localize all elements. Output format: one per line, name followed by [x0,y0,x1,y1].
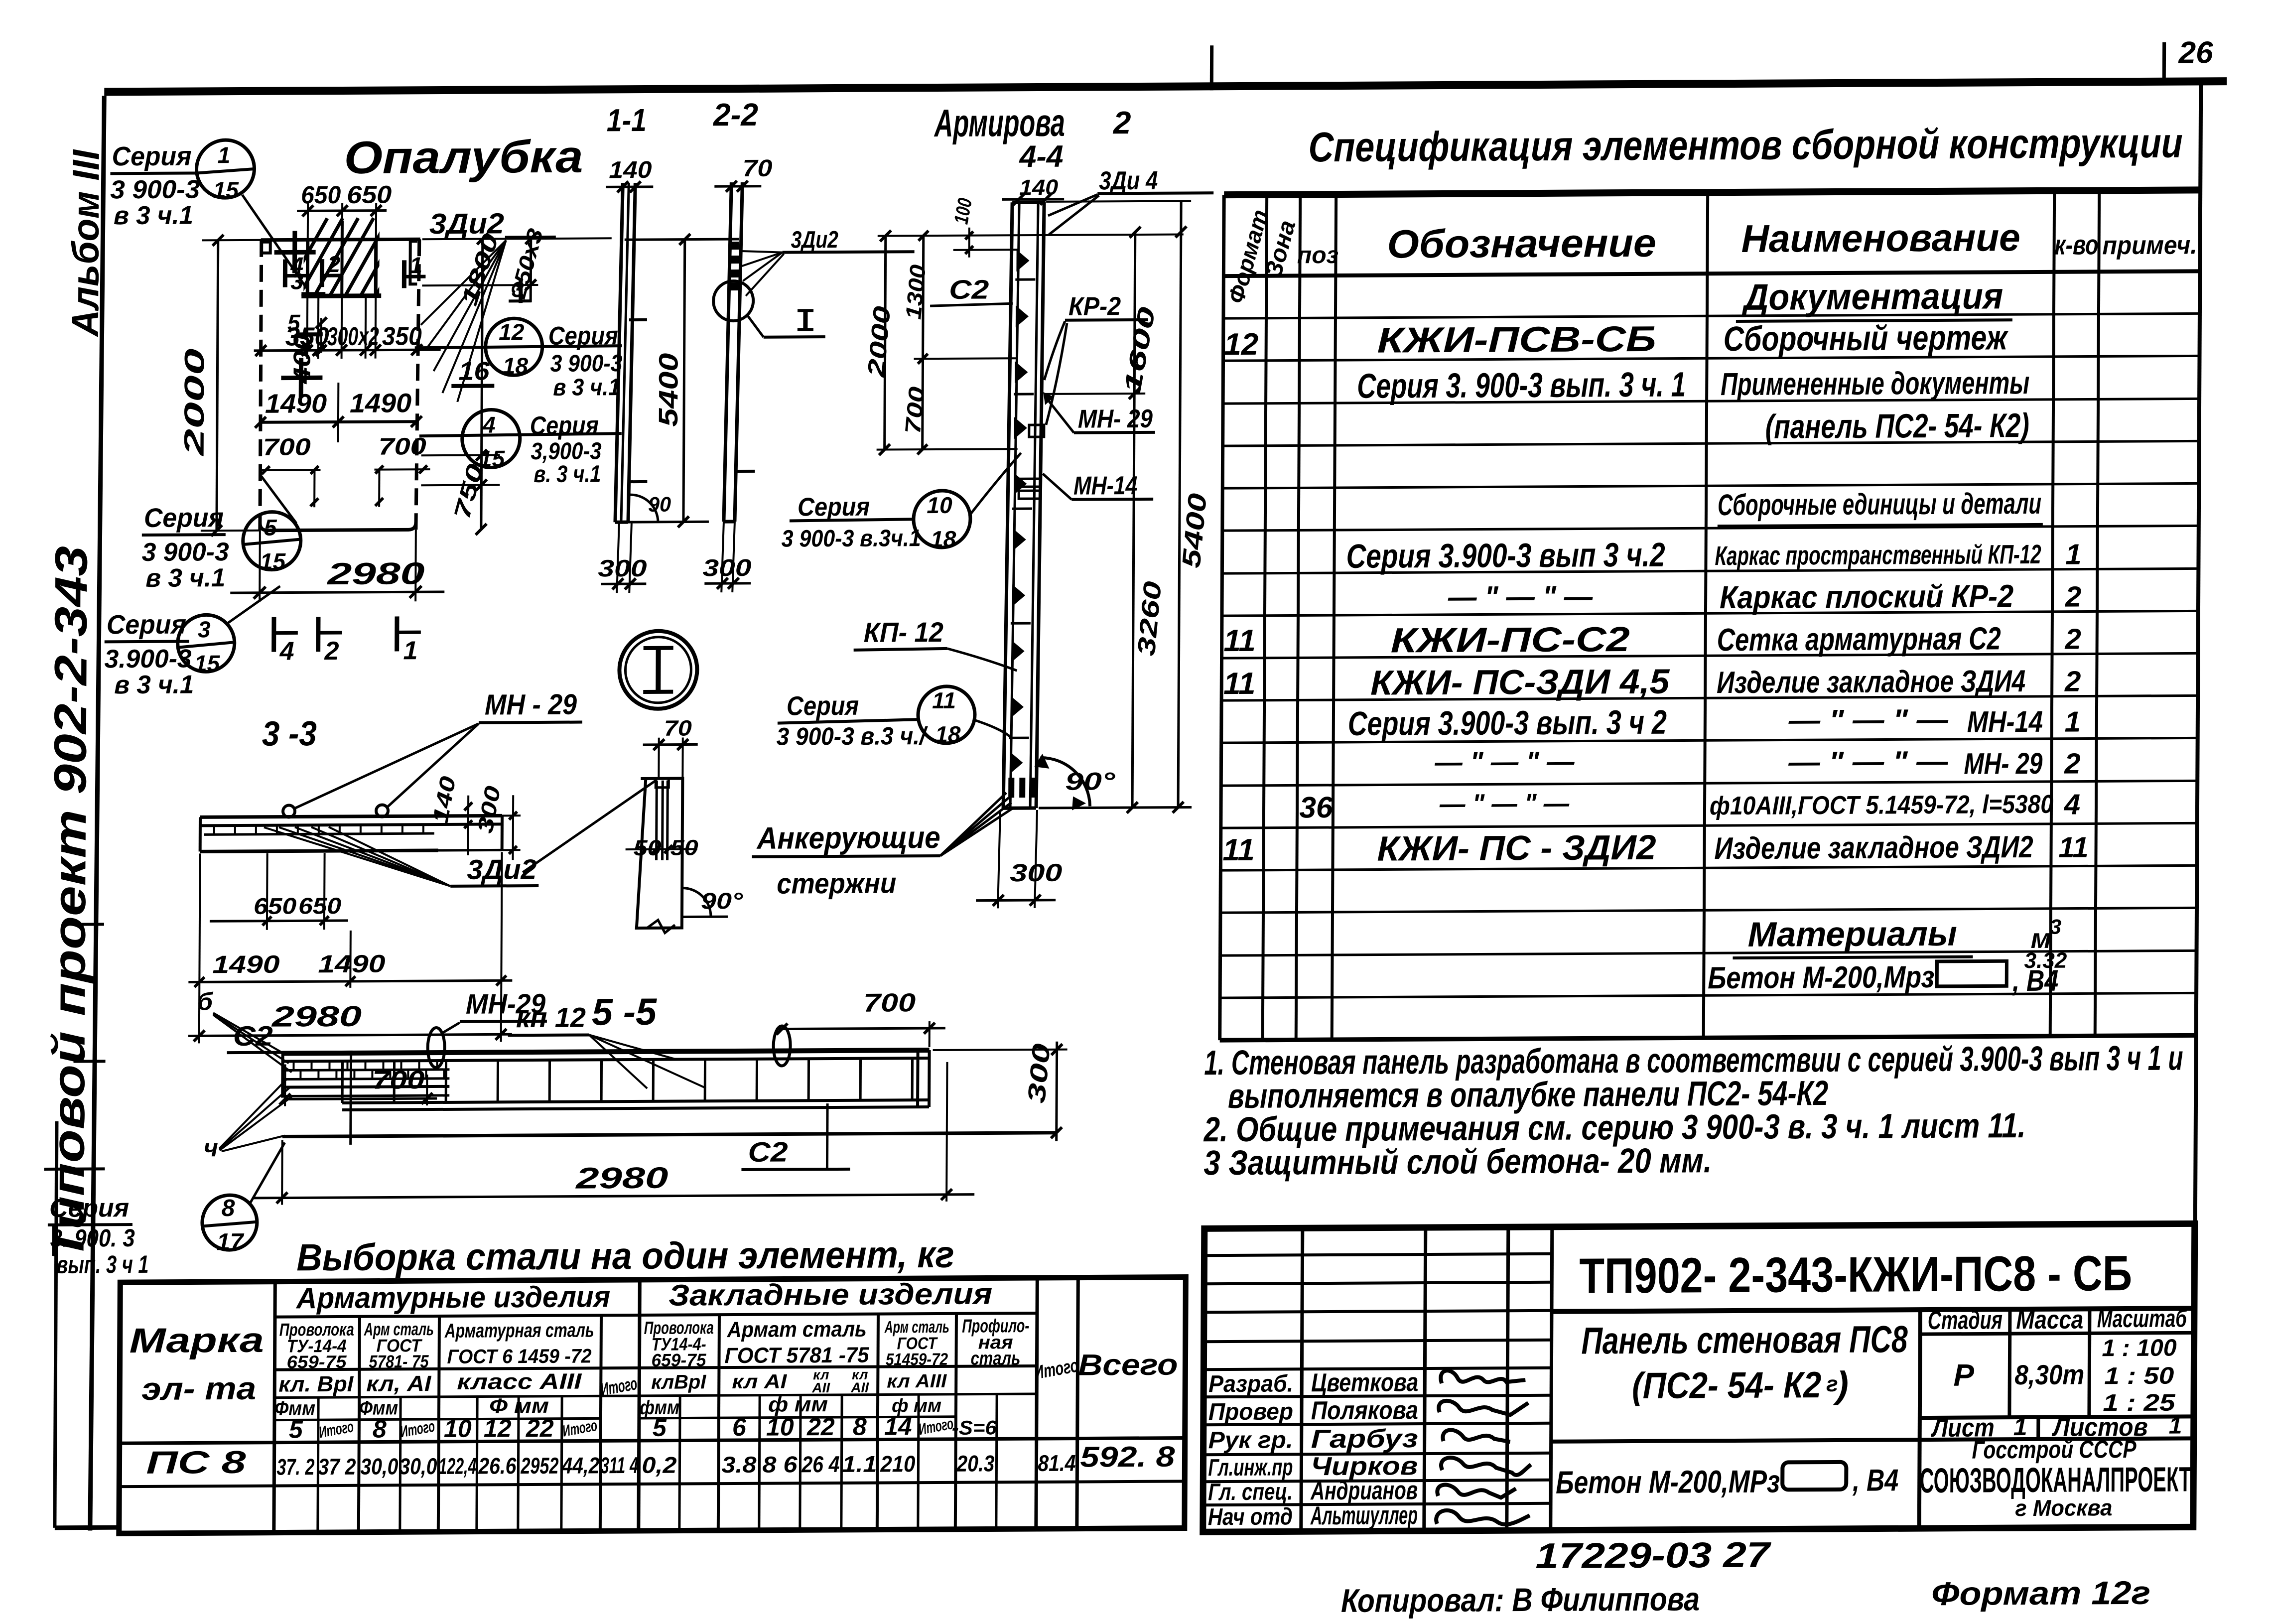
MN-29 hook symbol on 4-4 [1029,425,1044,437]
dim 700 right of 5-5 [776,988,946,1048]
org names [1919,1435,2191,1521]
label Ankeruyushchie sterzhni [752,793,1014,900]
label 3Di2 for 2-2 [741,226,915,296]
series label 10/18 [782,453,1021,552]
svg-text:Стадия: Стадия [1928,1306,2003,1335]
series label 1/15 [110,139,307,289]
svg-text:1: 1 [2065,706,2081,738]
svg-text:кл АI: кл АI [732,1370,787,1393]
svg-text:30,0: 30,0 [360,1453,399,1479]
signature labels [1208,1368,1419,1531]
svg-text:3 900-3: 3 900-3 [142,538,229,567]
svg-text:Сборочные единицы и детали: Сборочные единицы и детали [1718,487,2041,522]
svg-text:(панель ПС2- 54- К2): (панель ПС2- 54- К2) [1765,406,2029,446]
svg-text:Опалубка: Опалубка [344,132,583,183]
svg-text:в 3 ч.1: в 3 ч.1 [553,374,620,401]
svg-text:вып. 3 ч 1: вып. 3 ч 1 [56,1250,148,1279]
dim 300 bottom of 1-1 [598,522,647,593]
svg-text:2: 2 [2064,748,2081,780]
svg-text:311 4: 311 4 [600,1452,638,1478]
svg-text:Цветкова: Цветкова [1311,1368,1418,1397]
svg-text:700: 700 [379,433,427,460]
svg-text:8: 8 [222,1195,235,1221]
svg-text:Каркас плоский КР-2: Каркас плоский КР-2 [1720,578,2013,615]
stadia massa masshtab [1927,1304,2188,1417]
svg-text:6: 6 [732,1413,747,1441]
svg-text:(ПС2- 54- К2: (ПС2- 54- К2 [1632,1364,1821,1406]
svg-text:50: 50 [670,835,699,860]
svg-text:70: 70 [664,716,692,740]
dim 70 top of anchor detail [643,716,698,779]
sheet top border [104,81,2227,92]
svg-text:-S=6: -S=6 [952,1417,997,1439]
svg-text:3.8: 3.8 [721,1452,757,1478]
svg-text:15: 15 [479,445,506,471]
steel table header text [129,1276,1179,1445]
svg-text:— " — " —: — " — " — [1448,579,1593,613]
svg-text:300х2: 300х2 [327,322,379,352]
specification table grid [1220,190,2200,1040]
svg-text:3 900-3 в.3ч.1: 3 900-3 в.3ч.1 [782,525,921,552]
svg-text:300: 300 [702,555,752,581]
reinforcement title Armirova 2 [934,100,1131,145]
title block doc number [1579,1245,2133,1304]
section 2-2 title [713,97,758,133]
dim 2000 left of plan [178,235,262,537]
svg-text:Серия 3.900-3 вып 3 ч.2: Серия 3.900-3 вып 3 ч.2 [1346,536,1665,575]
dim 650 650 above plan [297,180,392,240]
svg-text:3 Защитный слой бетона-: 3 Защитный слой бетона- 20 мм. [1203,1141,1712,1182]
anchor rod detail [625,778,699,928]
formwork title Opalubka [344,132,583,183]
svg-text:Серия 3.900-3 вып. 3 ч 2: Серия 3.900-3 вып. 3 ч 2 [1348,703,1667,743]
svg-text:Примененные документы: Примененные документы [1721,365,2029,402]
svg-text:18: 18 [503,353,529,379]
formwork notch with hatching [279,218,435,303]
svg-text:1 : 100: 1 : 100 [2102,1335,2177,1362]
svg-text:Закладные изделия: Закладные изделия [668,1277,992,1312]
spec rows text [1221,274,2092,1001]
svg-text:1: 1 [218,142,231,168]
svg-text:14: 14 [884,1412,912,1440]
5-5 lattice [342,1050,930,1110]
svg-text:15: 15 [194,650,221,676]
svg-text:ГОСТ 5781 -75: ГОСТ 5781 -75 [724,1343,869,1368]
title block grid [1203,1223,2195,1532]
sheet right border [2195,81,2201,1223]
svg-text:Гл. спец.: Гл. спец. [1208,1479,1293,1505]
svg-text:кп 12: кп 12 [516,1002,586,1034]
label b with fan [197,987,292,1073]
svg-text:4-4: 4-4 [1018,139,1063,174]
svg-text:поз: поз [1297,242,1338,269]
svg-text:650: 650 [301,181,341,209]
svg-text:Госстрой СССР: Госстрой СССР [1972,1435,2137,1464]
svg-text:140: 140 [1019,175,1059,200]
svg-text:сталь: сталь [970,1348,1020,1369]
4-4 left dims [863,195,1184,455]
series label 11/18 [777,686,1012,750]
svg-text:Серия: Серия [49,1194,129,1223]
svg-text:Спецификация элементов сборн: Спецификация элементов сборной конструкц… [1308,120,2182,171]
svg-text:659-75: 659-75 [651,1350,706,1370]
5-5 left band [282,1053,449,1098]
svg-text:Разраб.: Разраб. [1208,1370,1293,1397]
dim 140 top of 4-4 [1002,175,1064,205]
svg-text:1300: 1300 [901,264,931,320]
svg-text:МН- 29: МН- 29 [1078,405,1153,434]
svg-text:1490: 1490 [212,950,280,979]
svg-text:Гл.инж.пр: Гл.инж.пр [1208,1454,1293,1481]
svg-text:1.1: 1.1 [842,1451,877,1477]
svg-text:5: 5 [287,309,301,335]
notch dim 350 300x2 350 [254,295,441,359]
svg-text:3 900-3 в.3 ч./: 3 900-3 в.3 ч./ [777,722,929,751]
90 deg mark 1-1 [630,493,671,522]
svg-text:37 2: 37 2 [318,1454,356,1480]
svg-text:10: 10 [444,1415,472,1443]
svg-text:8: 8 [853,1413,867,1441]
svg-text:С2: С2 [233,1020,273,1052]
svg-text:36: 36 [1299,791,1333,824]
svg-text:3Ди2: 3Ди2 [791,227,839,253]
svg-text:659-75: 659-75 [286,1352,347,1372]
svg-text:Серия: Серия [530,411,599,440]
svg-text:3 900-3: 3 900-3 [550,350,623,377]
svg-text:Каркас пространственный КП-12: Каркас пространственный КП-12 [1715,540,2041,571]
svg-text:100: 100 [950,197,976,226]
svg-text:0,2: 0,2 [642,1452,677,1478]
list row [1930,1412,2182,1443]
svg-text:11: 11 [1222,833,1255,867]
dim 700 pair inside plan [260,433,430,508]
svg-text:МН- 29: МН- 29 [1964,747,2043,781]
section 1-1 title [607,102,647,138]
svg-text:, В4: , В4 [1852,1463,1898,1497]
dim 250x3 right of plan [422,226,612,302]
svg-text:МН-14: МН-14 [1073,471,1137,501]
svg-text:15: 15 [213,177,240,203]
svg-text:клВрI: клВрI [651,1371,706,1393]
svg-text:Армирова: Армирова [934,101,1065,145]
steel table data row [146,1440,1175,1481]
dim 2980 under plan [230,530,445,602]
svg-text:Серия: Серия [144,503,224,533]
dim 2980 of 5-5 [252,1062,975,1205]
margin label Album III [64,149,108,338]
svg-text:81.4: 81.4 [1038,1450,1075,1476]
detail circle on 2-2 [713,281,753,321]
svg-text:ГОСТ 6 1459 -72: ГОСТ 6 1459 -72 [447,1345,591,1367]
svg-text:3 900-3: 3 900-3 [110,175,200,204]
svg-text:АII: АII [850,1380,869,1395]
label MN-29 of 3-3 [295,688,582,809]
svg-text:1: 1 [2065,539,2082,571]
label KP-12 [853,616,1017,672]
series label 8/17 [47,1143,284,1279]
title block beton line [1556,1462,1898,1500]
svg-text:3: 3 [198,616,211,642]
dim 300 right of 5-5 [933,1042,1068,1142]
5-5 bottom face [282,1133,1057,1137]
svg-text:300: 300 [598,555,647,582]
svg-text:в 3 ч.1: в 3 ч.1 [114,670,194,699]
dim 1490 1490 [255,382,422,443]
svg-text:к-во: к-во [2054,229,2098,260]
steel table title [296,1233,954,1279]
dim 400 inside plan [289,317,327,385]
svg-text:5: 5 [653,1414,667,1442]
svg-text:90°: 90° [1065,767,1116,796]
spec header texts [1223,202,2197,306]
svg-text:650: 650 [298,893,342,919]
svg-text:300: 300 [1022,1042,1056,1104]
numbers below title block [1341,1533,2151,1619]
svg-text:700: 700 [263,434,311,460]
svg-text:4: 4 [279,637,294,666]
dim 300 bottom of 4-4 [976,810,1063,909]
svg-text:КП- 12: КП- 12 [864,616,943,648]
fold tick 3 [44,1167,105,1171]
svg-text:22: 22 [526,1414,554,1442]
svg-text:650: 650 [347,180,392,208]
svg-text:700: 700 [863,988,916,1018]
svg-text:12: 12 [499,319,525,345]
svg-text:Выборка стали на один элем: Выборка стали на один элемент, кг [296,1233,954,1279]
series label 5/15 [141,476,301,593]
MN-14 plate symbol [1019,479,1041,499]
svg-text:Обозначение: Обозначение [1387,221,1656,267]
plan plus marks [273,231,323,398]
specification table title [1308,120,2182,171]
bottom-left cut mark [55,1121,123,1528]
svg-text:кл. ВрI: кл. ВрI [278,1372,354,1397]
fold mark top [1210,45,1213,90]
dim 700 left of 5-5 [279,1064,437,1106]
5-5 MN-29 hooks [427,1026,790,1068]
label ch with fan [204,1079,293,1162]
leader from 3-3 to anchor detail [523,781,656,872]
svg-text:Гарбуз: Гарбуз [1311,1424,1418,1454]
label KR-2 [1044,292,1148,425]
svg-text:Арматурная сталь: Арматурная сталь [444,1319,594,1342]
svg-text:СОЮЗВОДОКАНАЛПРОЕКТ: СОЮЗВОДОКАНАЛПРОЕКТ [1920,1460,2191,1500]
svg-text:Серия: Серия [112,141,191,172]
fold tick 2 [74,1060,106,1063]
label 3Du2 with fan to notch [420,207,556,402]
title block name [1581,1318,1908,1406]
svg-text:Изделие закладное ЗДИ4: Изделие закладное ЗДИ4 [1717,664,2025,700]
svg-text:5 -5: 5 -5 [592,991,658,1034]
svg-text:КР-2: КР-2 [1069,292,1121,321]
svg-text:Материалы: Материалы [1748,914,1957,954]
svg-text:Бетон М-200,МРз: Бетон М-200,МРз [1556,1464,1780,1500]
svg-text:ф10АIII,ГОСТ 5.1459-72, l=5380: ф10АIII,ГОСТ 5.1459-72, l=5380 [1710,790,2053,820]
svg-text:Рук гр.: Рук гр. [1208,1427,1293,1454]
svg-text:Анкерующие: Анкерующие [756,820,940,856]
svg-text:Документация: Документация [1741,275,2003,318]
svg-text:стержни: стержни [777,867,896,900]
4-4 right dims 1600 3260 5400 [1039,201,1214,813]
svg-text:Серия 3. 900-3 вып. 3 ч. 1: Серия 3. 900-3 вып. 3 ч. 1 [1357,365,1686,406]
svg-text:кл АIII: кл АIII [887,1371,947,1392]
right-side small step details [261,241,417,285]
svg-text:Арматурные изделия: Арматурные изделия [295,1280,610,1315]
svg-text:б: б [197,987,214,1015]
svg-text:2980: 2980 [271,1000,362,1033]
dim 300 bottom of 2-2 [702,522,752,592]
svg-text:— " — " —: — " — " — [1434,746,1575,778]
svg-text:11: 11 [932,687,956,713]
svg-text:кл, АI: кл, АI [366,1371,431,1396]
svg-text:Серия: Серия [548,321,618,351]
svg-text:МН - 29: МН - 29 [485,688,577,721]
svg-text:Масштаб: Масштаб [2097,1304,2188,1333]
svg-text:15: 15 [260,548,286,574]
svg-text:1-1: 1-1 [607,102,647,138]
svg-text:122,4: 122,4 [438,1453,476,1479]
3Di2 anchors on 2-2 bar [730,242,739,290]
90 deg mark anchor detail [647,888,743,933]
svg-text:в 3 ч.1: в 3 ч.1 [145,563,225,593]
svg-text:Панель стеновая ПС8: Панель стеновая ПС8 [1581,1318,1908,1362]
fold tick 1 [74,923,104,926]
svg-text:11: 11 [1223,667,1256,701]
svg-text:3. 900. 3: 3. 900. 3 [50,1224,135,1252]
svg-text:400: 400 [289,334,316,385]
svg-text:12: 12 [484,1414,512,1442]
svg-text:2: 2 [327,251,340,277]
svg-text:Всего: Всего [1078,1348,1178,1382]
formwork plan outline [260,239,420,531]
svg-text:650: 650 [254,893,297,919]
3-3 dim 2980 [188,999,512,1041]
svg-text:2000: 2000 [178,348,210,456]
3-3 fan to 3Di2 [264,826,539,887]
svg-text:10: 10 [766,1413,794,1441]
section 2-2 bar [724,182,756,522]
margin label Tipovoy proekt 902-2-343 [43,545,97,1261]
label kp12 [508,1001,706,1089]
svg-text:18: 18 [931,526,956,552]
svg-text:8,30т: 8,30т [2014,1358,2084,1390]
dim 1800 and 750 right of plan [421,230,504,535]
svg-text:26.6: 26.6 [478,1453,516,1479]
svg-text:1: 1 [2169,1412,2182,1439]
svg-text:Серия: Серия [798,493,870,522]
dim 140 top of 1-1 [606,157,653,192]
svg-text:эл- та: эл- та [141,1370,256,1407]
svg-text:592. 8: 592. 8 [1080,1441,1175,1474]
svg-text:8 6: 8 6 [762,1451,798,1477]
90 deg mark 4-4 [1034,753,1116,811]
svg-text:ПС 8: ПС 8 [146,1444,246,1481]
svg-text:— " — " —: — " — " — [1439,789,1570,819]
svg-text:класс АIII: класс АIII [457,1369,582,1394]
svg-text:5: 5 [289,1415,303,1443]
svg-text:Наименование: Наименование [1741,215,2020,261]
svg-text:Сетка арматурная С2: Сетка арматурная С2 [1717,620,2001,658]
svg-text:37. 2: 37. 2 [276,1454,315,1480]
svg-text:Сборочный чертеж: Сборочный чертеж [1724,318,2009,358]
section symbol I near 2-2 [748,309,825,337]
svg-text:8: 8 [373,1415,387,1443]
anchor rods at 4-4 bottom [1008,778,1036,798]
svg-text:Изделие закладное ЗДИ2: Изделие закладное ЗДИ2 [1714,830,2033,866]
sheet left border [90,96,104,1530]
svg-text:МН-14: МН-14 [1967,705,2043,739]
svg-text:КЖИ- ПС-ЗДИ 4,5: КЖИ- ПС-ЗДИ 4,5 [1370,662,1670,702]
svg-text:КЖИ-ПСВ-СБ: КЖИ-ПСВ-СБ [1377,319,1656,361]
svg-text:11: 11 [2058,831,2089,863]
section 3-3 title [262,714,317,753]
label C2 upper [227,1020,353,1145]
svg-text:210: 210 [880,1451,916,1477]
svg-text:17: 17 [217,1229,245,1255]
svg-text:Серия: Серия [107,610,186,640]
svg-text:17229-03 27: 17229-03 27 [1535,1535,1771,1576]
svg-text:11: 11 [1223,624,1256,658]
svg-text:Копировал: В Филиппова: Копировал: В Филиппова [1341,1580,1700,1619]
label C2 on 4-4 [930,274,1013,306]
svg-text:— " — " —: — " — " — [1788,745,1948,779]
section 5-5 title [592,991,658,1034]
3-3 lifting hooks MN-29 [283,805,388,817]
svg-text:700: 700 [372,1066,424,1095]
section marks bottom: 4 2 1 [274,616,421,666]
svg-text:Формат 12г: Формат 12г [1931,1574,2150,1612]
svg-text:в. 3 ч.1: в. 3 ч.1 [534,461,601,488]
svg-text:18: 18 [935,721,961,747]
series label 4/15b [419,409,622,488]
svg-text:г Москва: г Москва [2015,1494,2112,1521]
svg-text:2: 2 [324,637,339,666]
svg-text:2-2: 2-2 [713,97,758,133]
svg-text:3: 3 [2050,915,2062,939]
svg-text:5: 5 [264,515,277,541]
section 1-1 bar [615,183,649,522]
svg-text:4: 4 [2064,789,2081,821]
3-3 dim 650 650 [210,853,349,930]
series label 3/15 [104,586,280,700]
svg-text:С2: С2 [949,275,989,305]
svg-text:в 3 ч.1: в 3 ч.1 [114,201,193,230]
section marks 3 and 5 left of notch [287,268,326,335]
label MN-29 on 4-4 [1043,392,1155,434]
notes under table [1203,1038,2183,1182]
dim 70 top of 2-2 [714,155,773,192]
svg-text:4: 4 [482,411,496,437]
4-4 panel bar [1003,202,1044,808]
svg-text:Армат сталь: Армат сталь [727,1317,867,1342]
4-4 internal truss marks [1009,250,1035,774]
svg-text:3 -3: 3 -3 [262,714,317,753]
svg-text:26: 26 [2178,35,2213,70]
steel table grid [119,1277,1186,1533]
label MN-29 of 5-5 [441,988,547,1034]
3-3 dim 1490 1490 [188,852,513,1043]
svg-text:50: 50 [634,836,662,860]
svg-text:примеч.: примеч. [2102,231,2197,260]
svg-text:1: 1 [403,636,418,665]
svg-text:44,2: 44,2 [561,1452,599,1478]
5-5 top chord [283,1050,930,1061]
page number 26 [2164,35,2213,78]
3-3 right small dims 140 300 [428,774,521,860]
svg-text:Р: Р [1953,1358,1974,1393]
svg-text:Альтшуллер: Альтшуллер [1310,1501,1418,1530]
svg-text:2: 2 [1113,105,1131,140]
